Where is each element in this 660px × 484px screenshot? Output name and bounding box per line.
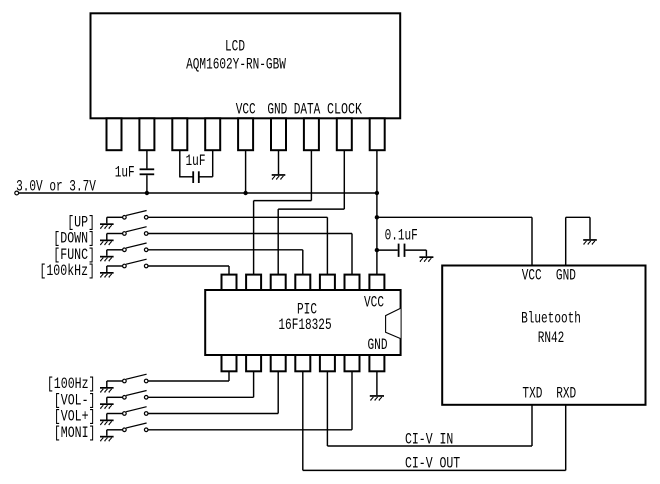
svg-text:16F18325: 16F18325 bbox=[278, 316, 331, 334]
svg-text:VCC: VCC bbox=[364, 294, 384, 312]
svg-text:VCC: VCC bbox=[522, 266, 542, 284]
svg-text:[VOL+]: [VOL+] bbox=[54, 408, 96, 426]
svg-text:DATA: DATA bbox=[294, 101, 321, 119]
svg-text:0.1uF: 0.1uF bbox=[385, 226, 418, 244]
svg-text:GND: GND bbox=[368, 336, 388, 354]
svg-text:CI-V IN: CI-V IN bbox=[405, 430, 453, 448]
svg-text:VCC: VCC bbox=[236, 101, 256, 119]
svg-text:CLOCK: CLOCK bbox=[327, 101, 362, 119]
svg-text:CI-V OUT: CI-V OUT bbox=[405, 454, 460, 472]
svg-text:[100kHz]: [100kHz] bbox=[39, 262, 95, 280]
svg-text:[100Hz]: [100Hz] bbox=[47, 375, 96, 393]
svg-text:AQM1602Y-RN-GBW: AQM1602Y-RN-GBW bbox=[186, 55, 286, 73]
svg-text:[DOWN]: [DOWN] bbox=[53, 230, 95, 248]
svg-text:1uF: 1uF bbox=[186, 152, 206, 170]
svg-text:GND: GND bbox=[267, 101, 287, 119]
svg-text:Bluetooth: Bluetooth bbox=[521, 310, 581, 328]
svg-text:TXD: TXD bbox=[522, 385, 542, 403]
svg-text:3.0V or 3.7V: 3.0V or 3.7V bbox=[16, 177, 96, 195]
svg-text:LCD: LCD bbox=[225, 38, 245, 56]
svg-text:GND: GND bbox=[556, 266, 576, 284]
svg-text:1uF: 1uF bbox=[115, 163, 135, 181]
svg-text:RXD: RXD bbox=[556, 385, 576, 403]
svg-text:RN42: RN42 bbox=[538, 329, 565, 347]
svg-text:[MONI]: [MONI] bbox=[54, 424, 96, 442]
